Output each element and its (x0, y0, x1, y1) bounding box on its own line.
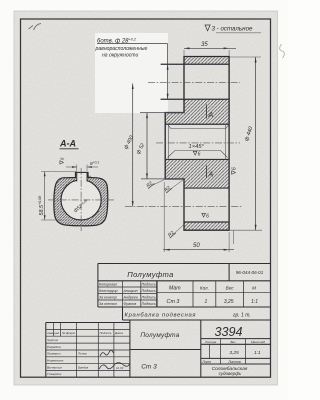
svg-text:Утвердил: Утвердил (47, 372, 62, 376)
right columns (157, 281, 244, 307)
svg-text:Полумуфта: Полумуфта (127, 270, 173, 279)
svg-text:6: 6 (206, 213, 209, 219)
pencil checkmark top-left (29, 24, 42, 31)
svg-text:96-044-06-01: 96-044-06-01 (236, 270, 264, 275)
svg-text:50: 50 (193, 243, 200, 249)
svg-text:Бредов: Бредов (78, 365, 89, 369)
svg-text:Копировал: Копировал (99, 283, 117, 287)
svg-text:Подпись: Подпись (142, 283, 156, 287)
dim 50 bottom (163, 182, 234, 252)
bore chamfer upper (168, 124, 230, 129)
title/number divider (228, 264, 230, 281)
svg-text:Чертил: Чертил (47, 338, 59, 342)
hub shoulder extension lines (140, 113, 184, 179)
dim f400 left (123, 84, 135, 207)
hatch band B (web below hole + hub corner) (165, 99, 229, 124)
svg-text:Полумуфта: Полумуфта (140, 332, 179, 339)
dim f28 vertical (from note) (167, 44, 169, 100)
dim f440 right (230, 57, 263, 230)
right cells (201, 339, 271, 364)
svg-text:№ Докум.: № Докум. (62, 331, 76, 335)
dim 58,5 left of A-A (38, 172, 77, 221)
svg-text:Дата: Дата (114, 331, 123, 335)
dim f52 left (135, 113, 147, 179)
svg-text:равнорасположенные: равнорасположенные (95, 46, 148, 52)
svg-text:За технол: За технол (99, 302, 117, 306)
hatch band A (rim above hole) (184, 57, 229, 65)
svg-text:6: 6 (198, 151, 201, 157)
svg-text:Мат: Мат (169, 286, 181, 292)
svg-text:Вычертил: Вычертил (47, 365, 62, 369)
svg-text:1×45°: 1×45° (189, 144, 205, 150)
table outline (98, 264, 271, 308)
svg-text:Вес: Вес (231, 340, 237, 344)
left block columns (123, 281, 158, 307)
svg-text:Кранбалка подвесная: Кранбалка подвесная (125, 313, 197, 319)
svg-text:Лист: Лист (201, 360, 211, 364)
svg-text:3,25: 3,25 (229, 350, 239, 356)
svg-text:За конетр: За конетр (99, 296, 117, 300)
svg-text:6: 6 (88, 176, 92, 178)
hatch band C (web below bore + hub corner) (165, 159, 229, 188)
svg-text:А: А (208, 112, 214, 119)
svg-text:Подпись: Подпись (142, 302, 156, 306)
finish mark right face (rotated) (232, 167, 238, 174)
svg-text:35: 35 (201, 42, 208, 48)
fillet label R2 upper left (145, 180, 164, 190)
finish mark in bore (193, 151, 200, 157)
svg-text:Подпись: Подпись (100, 331, 112, 335)
left block rows (98, 287, 157, 300)
svg-text:6: 6 (232, 167, 238, 170)
bore circle (61, 180, 101, 220)
svg-text:1: 1 (205, 299, 208, 305)
hole edges (f28) (161, 64, 230, 99)
hole note: 6 otv f28 (95, 38, 168, 59)
svg-text:М: М (252, 286, 256, 291)
svg-text:Франов: Франов (124, 302, 137, 306)
svg-text:Подпись: Подпись (142, 289, 156, 293)
svg-text:Литера: Литера (204, 340, 217, 344)
svg-text:на окружности: на окружности (102, 52, 138, 58)
kran row (123, 307, 271, 320)
white correction patch behind hole note (95, 33, 168, 113)
bore chamfer verticals (169, 124, 226, 159)
dim 35 top (184, 42, 236, 56)
svg-text:3,25: 3,25 (224, 299, 234, 305)
svg-text:извещал: извещал (47, 331, 59, 335)
bore band edges (165, 124, 229, 159)
part outline (165, 57, 229, 231)
svg-text:Андреев: Андреев (123, 296, 138, 300)
svg-text:Разработ: Разработ (47, 345, 62, 349)
polish flag lower (207, 166, 214, 179)
svg-text:Конструир: Конструир (99, 289, 118, 293)
svg-text:Ст 3: Ст 3 (141, 364, 157, 371)
finish note top-right: triangle 3 - ostalnoe (205, 25, 261, 33)
fillet label R2 bottom (167, 225, 184, 239)
pencil squiggle right margin (280, 44, 285, 58)
polish flag upper (207, 105, 214, 120)
finish mark keyway (rotated) (60, 157, 65, 164)
hub blob hatched (54, 173, 108, 226)
centerline top hole (148, 82, 240, 84)
centerline bottom hole (125, 206, 243, 208)
middle cells (130, 320, 201, 377)
hatch band D (bottom rim) (184, 222, 229, 230)
svg-text:Подпись: Подпись (142, 296, 156, 300)
upper table texts (99, 270, 264, 319)
svg-text:12.XII: 12.XII (116, 366, 124, 370)
svg-text:Масштаб: Масштаб (251, 340, 265, 344)
svg-text:Кол.: Кол. (200, 286, 209, 291)
svg-text:А: А (208, 172, 214, 179)
drawing frame (21, 19, 271, 377)
svg-text:1:1: 1:1 (254, 350, 261, 356)
svg-text:Нормоконт: Нормоконт (47, 359, 64, 363)
svg-text:3 - остальное: 3 - остальное (212, 26, 254, 33)
svg-text:3394: 3394 (215, 325, 243, 339)
svg-text:А-А: А-А (59, 139, 76, 149)
keyway slot (77, 173, 87, 182)
paper sheet (14, 11, 278, 385)
finish mark bottom rim (202, 213, 209, 219)
svg-text:Ст 3: Ст 3 (167, 299, 180, 305)
signatures squiggles (100, 350, 114, 356)
keyway width dim 8 (66, 161, 99, 171)
bore chamfer lower (168, 151, 228, 158)
fillet label R2 upper right (163, 180, 183, 194)
svg-text:Аницкин: Аницкин (123, 289, 138, 293)
label A-A (59, 139, 79, 149)
left signatures block (46, 323, 130, 378)
svg-text:Листов: Листов (227, 360, 241, 364)
svg-text:6: 6 (60, 157, 65, 160)
centerline bore axis (156, 142, 240, 144)
svg-text:Вес: Вес (226, 286, 235, 291)
svg-text:судоверфь: судоверфь (219, 371, 242, 376)
svg-text:Попов: Попов (78, 352, 87, 356)
web lower edges (184, 188, 229, 222)
svg-text:гр. 1 т.: гр. 1 т. (233, 313, 251, 319)
svg-text:Проверил: Проверил (47, 352, 61, 356)
svg-text:1:1: 1:1 (251, 299, 258, 305)
lower block texts (47, 325, 265, 376)
A-A centerlines (48, 199, 114, 201)
